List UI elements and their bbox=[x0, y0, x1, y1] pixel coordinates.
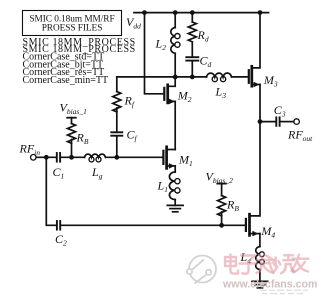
junction RFin / C2 branch bbox=[44, 155, 49, 160]
wire Rd to Cd bbox=[191, 42, 193, 56]
watermark fine print bbox=[260, 290, 308, 293]
inductor L1 bbox=[169, 172, 180, 200]
capacitor C3 bbox=[276, 117, 279, 125]
junction rail / L2 bbox=[173, 10, 178, 15]
ground M1 bbox=[167, 205, 183, 211]
wire drain node line bbox=[117, 76, 207, 78]
wire Lg to M1 gate bbox=[106, 156, 164, 158]
wire L1 to ground bbox=[174, 200, 176, 206]
resistor Rd bbox=[188, 22, 196, 42]
wire RFin node down to C2 bbox=[46, 157, 56, 225]
wire M4 source to L4 bbox=[259, 234, 261, 247]
watermark chinese text bbox=[225, 255, 309, 274]
junction drain node / L2 bbox=[173, 75, 178, 80]
junction rail / Rd bbox=[190, 10, 195, 15]
svg-text:PROESS FILES: PROESS FILES bbox=[42, 23, 103, 33]
junction rail / M2 gate bias bbox=[142, 10, 147, 15]
inductor Lg bbox=[85, 154, 106, 162]
transistor M2 bbox=[164, 77, 175, 104]
svg-text:M4: M4 bbox=[260, 224, 275, 240]
svg-text:Cf: Cf bbox=[127, 128, 138, 144]
svg-text:RFin: RFin bbox=[19, 142, 41, 158]
inductor L2 bbox=[171, 28, 180, 54]
junction rail / M3 drain bbox=[258, 10, 263, 15]
wire output node to M4 drain bbox=[250, 122, 261, 216]
junction M4 gate / RB bbox=[219, 223, 224, 228]
svg-text:L2: L2 bbox=[155, 37, 167, 53]
wire M3 source to output node bbox=[259, 85, 261, 122]
svg-text:C3: C3 bbox=[274, 103, 286, 119]
feedback wire to Rf bbox=[116, 77, 118, 92]
svg-text:RFout: RFout bbox=[287, 128, 313, 144]
wire RB to M4 gate line bbox=[221, 212, 223, 225]
svg-text:M2: M2 bbox=[177, 89, 192, 105]
wire Vbias2 to RB bbox=[221, 184, 223, 196]
resistor Rf bbox=[113, 92, 121, 112]
transistor M1 bbox=[163, 147, 175, 169]
svg-text:RB: RB bbox=[76, 131, 89, 147]
svg-text:Vbias_2: Vbias_2 bbox=[206, 170, 234, 186]
Vbias1 terminal bbox=[67, 117, 76, 119]
svg-text:Vbias_1: Vbias_1 bbox=[60, 101, 87, 117]
wire Cd to drain node bbox=[191, 62, 193, 77]
wire L2 to drain node bbox=[174, 53, 176, 77]
Vdd rail wire bbox=[134, 12, 269, 14]
wire Cf to gate node bbox=[116, 137, 118, 158]
wire C2 to M4 gate bbox=[61, 224, 246, 226]
svg-text:RB: RB bbox=[226, 198, 239, 214]
capacitor C2 bbox=[57, 221, 60, 230]
svg-text:CornerCase_min=TT: CornerCase_min=TT bbox=[23, 75, 109, 86]
RFout terminal bbox=[294, 119, 300, 125]
wire L3 to M3 gate bbox=[232, 76, 249, 78]
transistor M3 bbox=[249, 13, 260, 88]
wire RFin to C1 bbox=[36, 156, 56, 158]
wire M2 source to M1 drain bbox=[174, 101, 176, 149]
wire C3 to RFout bbox=[280, 121, 294, 123]
svg-text:Lg: Lg bbox=[91, 165, 103, 181]
svg-text:Cd: Cd bbox=[200, 54, 212, 70]
Vbias2 terminal bbox=[217, 183, 226, 185]
capacitor Cf bbox=[111, 132, 122, 135]
svg-text:M1: M1 bbox=[178, 153, 193, 169]
capacitor Cd bbox=[186, 57, 198, 60]
inductor L4 bbox=[256, 247, 265, 270]
resistor RB bias1 bbox=[68, 124, 76, 144]
watermark logo bbox=[187, 256, 216, 284]
transistor M4 bbox=[246, 214, 260, 236]
wire M1 source to L1 bbox=[174, 166, 176, 172]
wire L4 to ground bbox=[259, 270, 261, 282]
svg-text:C2: C2 bbox=[55, 232, 67, 248]
svg-text:L1: L1 bbox=[157, 179, 168, 195]
svg-text:Rf: Rf bbox=[124, 94, 135, 110]
junction gate node / RB bbox=[69, 155, 74, 160]
ground M4 bbox=[252, 281, 268, 287]
wire Rf to Cf bbox=[116, 108, 118, 131]
wire Vdd to M2 gate bbox=[145, 13, 164, 94]
svg-text:Rd: Rd bbox=[197, 28, 209, 44]
svg-text:www.elecfans.com: www.elecfans.com bbox=[222, 279, 317, 291]
wire Vbias1 to RB bbox=[71, 118, 73, 124]
wire rail to L2 bbox=[174, 13, 176, 28]
process files box bbox=[23, 11, 122, 36]
capacitor C1 bbox=[57, 153, 60, 162]
svg-text:C1: C1 bbox=[53, 165, 65, 181]
wire output node to C3 bbox=[260, 121, 276, 123]
svg-text:M3: M3 bbox=[263, 73, 278, 89]
junction gate node / Cf bbox=[114, 155, 119, 160]
RFin terminal bbox=[31, 155, 37, 161]
resistor RB bias2 bbox=[218, 196, 226, 216]
wire RB to gate node bbox=[71, 140, 73, 158]
node output / C3 bbox=[258, 119, 263, 124]
wire rail to Rd bbox=[191, 13, 193, 22]
junction drain node / Cd bbox=[190, 75, 195, 80]
svg-text:Vdd: Vdd bbox=[126, 15, 141, 31]
wire C1 to Lg bbox=[61, 156, 85, 158]
inductor L3 bbox=[207, 73, 232, 82]
svg-text:L3: L3 bbox=[215, 85, 227, 101]
